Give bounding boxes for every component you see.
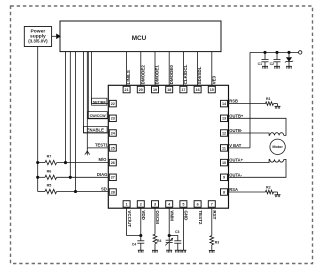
svg-text:10: 10: [222, 161, 226, 165]
svg-text:26: 26: [111, 161, 115, 165]
svg-text:VMM: VMM: [169, 210, 174, 221]
svg-text:2: 2: [140, 202, 142, 206]
svg-text:6: 6: [197, 202, 199, 206]
svg-text:R6: R6: [47, 169, 52, 173]
svg-text:R7: R7: [47, 155, 52, 159]
svg-text:11: 11: [222, 146, 226, 150]
svg-text:12: 12: [222, 131, 226, 135]
svg-text:RSB: RSB: [229, 99, 238, 104]
svg-text:22: 22: [111, 102, 115, 106]
svg-text:19: 19: [153, 88, 157, 92]
svg-text:13: 13: [222, 117, 226, 121]
svg-text:RST: RST: [212, 210, 217, 219]
svg-text:OUTB-: OUTB-: [229, 128, 243, 133]
svg-text:7: 7: [211, 202, 213, 206]
svg-text:18: 18: [167, 88, 171, 92]
svg-text:VE3: VE3: [211, 75, 216, 84]
svg-text:R1: R1: [266, 97, 271, 101]
svg-text:C3: C3: [175, 230, 179, 234]
svg-text:3: 3: [154, 202, 156, 206]
svg-text:23: 23: [111, 117, 115, 121]
svg-text:Power: Power: [31, 28, 46, 34]
svg-text:8: 8: [223, 190, 225, 194]
svg-text:9: 9: [223, 176, 225, 180]
svg-text:DMODE0: DMODE0: [169, 65, 174, 85]
svg-text:DMODE1: DMODE1: [155, 65, 160, 85]
svg-text:SDI/SDL: SDI/SDL: [197, 66, 202, 84]
svg-text:17: 17: [181, 88, 185, 92]
svg-text:DIAG: DIAG: [97, 172, 107, 177]
svg-text:R4: R4: [157, 239, 161, 243]
svg-text:DMODE2: DMODE2: [140, 65, 145, 85]
svg-text:OUTA+: OUTA+: [229, 158, 243, 163]
svg-text:C4: C4: [132, 242, 136, 246]
svg-text:CLK/DCL: CLK/DCL: [183, 64, 188, 84]
svg-text:GND: GND: [184, 210, 189, 221]
svg-text:M/O: M/O: [98, 157, 107, 162]
svg-text:C1: C1: [258, 62, 262, 66]
svg-text:1: 1: [126, 202, 128, 206]
svg-text:CW/CCW: CW/CCW: [90, 114, 106, 118]
svg-text:MCU: MCU: [132, 35, 147, 42]
svg-text:RSA: RSA: [229, 187, 238, 192]
svg-text:SET/BF: SET/BF: [93, 101, 107, 105]
svg-text:C2: C2: [270, 62, 274, 66]
svg-text:VCC/UT: VCC/UT: [127, 210, 132, 227]
svg-text:25: 25: [111, 146, 115, 150]
svg-text:28: 28: [111, 190, 115, 194]
svg-text:R3: R3: [215, 240, 219, 244]
svg-text:(3.3/5.0V): (3.3/5.0V): [28, 39, 48, 44]
svg-text:21: 21: [125, 88, 129, 92]
svg-text:16: 16: [196, 88, 200, 92]
svg-text:ENABLE: ENABLE: [87, 128, 104, 133]
svg-text:OSCM: OSCM: [155, 210, 160, 224]
svg-text:TEST2: TEST2: [198, 210, 203, 225]
svg-text:SD: SD: [101, 187, 107, 192]
svg-text:TEST1: TEST1: [95, 143, 108, 148]
svg-text:27: 27: [111, 176, 115, 180]
svg-text:LIN/LS: LIN/LS: [126, 70, 131, 84]
svg-text:15: 15: [210, 88, 214, 92]
svg-text:R2: R2: [266, 185, 271, 189]
svg-text:Motor: Motor: [272, 145, 283, 149]
svg-text:R5: R5: [47, 184, 52, 188]
svg-text:20: 20: [139, 88, 143, 92]
svg-text:VDD: VDD: [141, 210, 146, 220]
svg-text:OUTB+: OUTB+: [229, 113, 244, 118]
svg-text:OUTA-: OUTA-: [229, 172, 242, 177]
svg-text:5: 5: [182, 202, 184, 206]
svg-text:V BAT: V BAT: [229, 143, 241, 148]
